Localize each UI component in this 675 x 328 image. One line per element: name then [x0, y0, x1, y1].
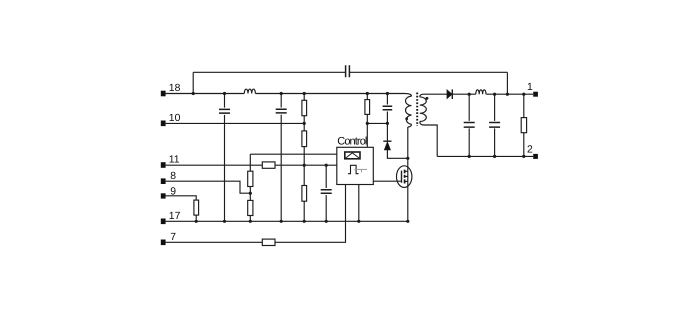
node: feedback tap on output	[506, 93, 509, 96]
node: output cap Co2 top	[493, 93, 496, 96]
control block U1	[337, 135, 374, 184]
resistor Ra (rail to pin10)	[302, 92, 307, 124]
inductor L2 output	[476, 90, 486, 94]
capacitor Co2	[489, 94, 500, 158]
svg-text:18: 18	[169, 83, 181, 94]
wire: ground rail (pin17 row)	[166, 220, 408, 222]
wire: output bottom rail to pin2	[437, 155, 533, 157]
wire: pin7 row right and riser to control	[275, 185, 346, 243]
MOSFET Q1 gate bar	[401, 171, 403, 183]
resistor R11 in pin11 row	[262, 162, 275, 168]
resistor Rd1 (divider upper)	[248, 171, 253, 200]
wire: control input row from divider	[250, 153, 336, 155]
pin 7 terminal	[161, 240, 166, 246]
capacitor Cs (rail to clamp node)	[383, 92, 393, 124]
MOSFET Q1 terminal stubs	[405, 171, 408, 181]
wire: top feedback left segment	[193, 71, 345, 73]
svg-text:8: 8	[170, 171, 176, 182]
svg-text:11: 11	[169, 155, 180, 166]
capacitor C1 input	[219, 92, 230, 223]
wire: gate from control	[373, 180, 401, 182]
resistor Rc (pin11 row to ground rail)	[302, 165, 307, 223]
MOSFET Q1 channel segments	[404, 170, 406, 184]
node: pin10 / divider chain	[303, 122, 306, 125]
resistor Rb (pin10 to pin11 row)	[302, 123, 307, 166]
node: output cap Co1 top	[468, 93, 471, 96]
wire: pin18 rail right segment to transformer	[255, 93, 404, 95]
wire: divider riser	[249, 154, 251, 171]
pin 9 terminal	[161, 193, 166, 198]
node: control ground on rail	[357, 220, 360, 223]
svg-text:2: 2	[527, 144, 533, 155]
node: MOSFET source on ground rail	[406, 220, 409, 223]
capacitor C2 after filter	[276, 92, 287, 223]
svg-text:10: 10	[169, 113, 181, 124]
pin 18 terminal	[161, 91, 166, 97]
wire: pin9 row	[166, 196, 197, 200]
wire: control ground lead	[358, 185, 360, 222]
diode D1 (drain to clamp node)	[383, 123, 409, 159]
transformer T1 primary winding	[405, 94, 412, 128]
transformer T1 secondary phase dot	[426, 97, 429, 100]
svg-text:1: 1	[527, 82, 533, 93]
resistor R9	[194, 200, 199, 223]
wire: pin7 row left	[166, 241, 263, 243]
wire: feedback drop to output rail	[506, 72, 508, 94]
svg-text:17: 17	[169, 211, 181, 222]
resistor Rd2 (divider lower)	[248, 200, 253, 223]
pwm pulse symbol inside control	[348, 165, 359, 173]
wire: pin11 row left	[166, 164, 263, 166]
wire: pin11 row right into control	[275, 164, 337, 166]
wire: pin10 row	[166, 122, 304, 124]
wire: secondary bottom drop	[424, 125, 437, 156]
capacitor C3 (pin11 row to ground)	[321, 164, 332, 223]
svg-text:7: 7	[170, 232, 176, 243]
MOSFET Q1 body circle	[397, 166, 412, 188]
wire: inductor to pin1	[486, 93, 533, 95]
MOSFET Q1 drain line	[407, 127, 409, 221]
wire: diode to output inductor	[452, 93, 476, 95]
oscillator symbol inside control	[345, 152, 360, 159]
wire: top feedback right segment	[349, 71, 507, 73]
transformer T1 secondary winding	[420, 94, 427, 125]
transformer T1 primary phase dot	[405, 117, 408, 120]
pin 11 terminal	[161, 162, 166, 168]
svg-text:Control: Control	[337, 135, 367, 147]
transformer T1 core	[416, 93, 418, 127]
pin 1 terminal	[533, 92, 538, 97]
inductor L1 on input rail	[244, 89, 255, 93]
node: clamp node at Rs	[366, 122, 369, 125]
wire: pin8 row with step	[166, 181, 251, 193]
resistor Rout (output bleeder)	[521, 93, 526, 158]
wire: pin18 rail left segment	[166, 93, 245, 95]
wire: riser from rail to top feedback wire	[192, 72, 194, 93]
node: clamp node at cap	[386, 122, 389, 125]
node: rail / riser junction	[192, 92, 195, 95]
pin 17 terminal	[161, 219, 166, 225]
capacitor Co1	[464, 94, 475, 158]
diode D2 output rectifier	[447, 89, 452, 99]
pin 10 terminal	[161, 121, 166, 127]
resistor Rs (rail to control supply node)	[365, 92, 370, 147]
pin 2 terminal	[533, 154, 538, 159]
wire: secondary top to diode	[424, 93, 448, 95]
wire: clamp node horizontal	[367, 122, 387, 124]
pin 8 terminal	[161, 178, 166, 184]
capacitor in top feedback wire	[346, 65, 350, 77]
node: divider midpoint / pin8	[249, 192, 252, 195]
resistor R7 in pin7 row	[262, 239, 275, 245]
